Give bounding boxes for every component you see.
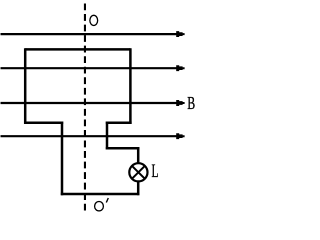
label O (90, 15, 98, 25)
lamp lower lead wire (137, 182, 140, 196)
field line arrow B1 (1, 31, 185, 37)
coil bottom-left step wire (24, 121, 63, 124)
lamp L (129, 163, 147, 181)
axis OO' dashed line (84, 4, 86, 211)
coil left neck wire (61, 122, 64, 196)
svg-text:L: L (152, 161, 159, 181)
field line arrow B2 (1, 65, 185, 71)
label O' (95, 198, 109, 211)
wire lamp to right neck (106, 147, 140, 150)
coil bottom-right step wire (106, 121, 132, 124)
bottom wire to lamp (61, 193, 140, 196)
coil right wire (129, 48, 132, 124)
field line arrow B4 (1, 133, 185, 139)
field line arrow B3 (1, 100, 185, 106)
lamp upper lead wire (137, 147, 140, 163)
coil right neck wire (106, 122, 109, 150)
coil left wire (24, 48, 27, 124)
coil top wire (25, 48, 130, 51)
svg-text:B: B (187, 94, 195, 114)
